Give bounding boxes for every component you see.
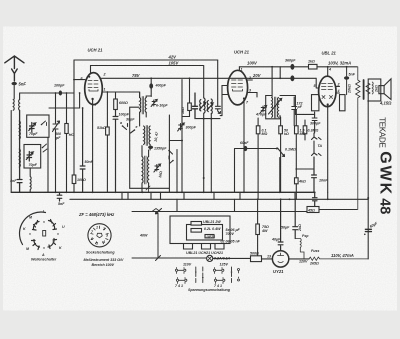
tube U3 UBL21 envelope <box>319 76 336 106</box>
bus2 <box>70 198 368 200</box>
bus line 105V <box>91 65 204 67</box>
wire 105V drop to tube top <box>90 66 92 73</box>
PSU resistor R13 75ohm <box>257 199 259 224</box>
wire bus3 to arrow <box>132 212 207 261</box>
box speaker field <box>368 79 381 101</box>
rectifier U4 UY21 <box>272 251 288 267</box>
IF transformer T4 arrow <box>269 99 282 115</box>
coil L4 bobbin <box>29 168 32 192</box>
wire T1-T2 link <box>140 112 147 126</box>
tube U2 pin7 lead <box>243 99 245 193</box>
SECTION2 <box>122 60 357 193</box>
resistor R9 0.3M <box>304 120 306 140</box>
tube U2 pin3 stub <box>247 93 257 98</box>
wire T1 tops <box>140 92 152 97</box>
junction dots bus1 <box>55 191 57 193</box>
tube U2 internals <box>232 80 243 91</box>
oscillator coil L6 <box>211 99 212 114</box>
oscillator coil L5 <box>204 98 205 113</box>
TEXTS2 <box>23 50 394 293</box>
wire extra tick <box>128 192 151 199</box>
resistor R3 51k <box>106 92 108 127</box>
rectifier leads <box>213 257 309 260</box>
SECTION4 <box>19 212 239 283</box>
tube U1 UCH21 envelope <box>85 73 103 105</box>
resistor bank R6 <box>257 118 259 192</box>
bus line 42V <box>74 59 218 61</box>
capacitor C6 6nF on line <box>290 75 294 81</box>
wire T4 to C14 <box>295 113 314 115</box>
wire grid cap lead <box>49 80 85 108</box>
coil Fsp field <box>295 239 304 259</box>
IF transformer T3 core <box>145 156 146 184</box>
speaker LS <box>379 86 384 94</box>
lamp dial <box>207 255 213 261</box>
resistor R14 500ohm <box>251 256 262 262</box>
transformer TR core bar <box>363 80 365 99</box>
trimmer C10 300pF <box>178 123 185 131</box>
trimmer CT2 <box>151 100 157 107</box>
selector group1 pins <box>177 268 185 274</box>
winding secondary zigzag <box>366 83 370 94</box>
wire 78V anode line <box>102 77 317 79</box>
bus line 100V anode <box>239 66 357 68</box>
node j3 <box>150 77 152 79</box>
resistor R8 1.5M <box>295 110 297 169</box>
socket circle <box>88 224 111 247</box>
IF transformer T4 core <box>274 97 275 118</box>
IF transformer T1 secondary <box>145 98 146 113</box>
contact D1 <box>42 121 47 126</box>
IF transformer T1 primary <box>140 98 141 113</box>
wire T3 ends <box>142 146 149 193</box>
capacitor C11b padder <box>215 106 222 115</box>
capacitor C9 1350pF <box>149 145 151 151</box>
antenna <box>5 56 24 81</box>
wellenschalter cluster NW <box>33 221 40 231</box>
trimmer CA1 70pF <box>29 123 36 133</box>
wire screen drop <box>272 67 280 97</box>
trimmer on bus1 <box>146 186 150 192</box>
tube U2 UCH21 envelope <box>228 70 248 105</box>
capacitor C16 10nF <box>312 157 317 192</box>
capacitor C2 100pF series <box>59 91 62 96</box>
IF transformer T2 core <box>146 126 147 146</box>
resistor R12 45ohm <box>307 207 319 213</box>
wellenschalter cluster SE <box>48 239 57 249</box>
wire AVC line 60pF <box>235 149 277 193</box>
selector group2 pins <box>215 268 223 274</box>
IF transformer T2 primary <box>144 126 145 144</box>
wire grid feed <box>20 93 74 100</box>
wire 42V vertical feed <box>73 60 75 175</box>
box barretter outer <box>170 216 230 244</box>
box S2 band unit 2 <box>24 145 41 169</box>
resistor R7 50k <box>280 117 282 192</box>
capacitor C7 400pF <box>150 78 152 96</box>
node j4 <box>271 66 273 68</box>
socket pins <box>91 226 109 244</box>
resistor R4 osc grid <box>189 78 191 103</box>
barretter tabs <box>184 244 225 250</box>
resistor R11 20k zigzag <box>356 67 360 210</box>
capacitor C11 osc pad <box>193 93 198 119</box>
bus1 ground <box>11 191 315 193</box>
resistor RB2 <box>191 229 202 233</box>
jack TA lower <box>312 141 322 156</box>
wire AF coupling <box>296 168 314 170</box>
speaker coil <box>371 82 374 94</box>
node j2 <box>66 92 68 94</box>
tube U3 left stubs <box>316 78 319 88</box>
tube U1 pin7 lead <box>92 99 94 192</box>
switch contacts a e upper <box>123 124 135 134</box>
tube U3 top lead <box>327 67 329 77</box>
capacitor C8 100pF <box>113 110 118 193</box>
trimmer CT4 470pF <box>260 106 266 113</box>
switch contacts a e mid <box>169 151 173 164</box>
tube U2 pin1 top <box>238 67 240 71</box>
capacitor C12 360pF <box>290 64 294 70</box>
jack TA upper <box>312 133 322 140</box>
wire left coil down <box>10 111 12 193</box>
bus3 heater <box>152 211 307 213</box>
wire S1 to bus <box>47 138 49 193</box>
capacitor C3 4nF <box>17 111 22 193</box>
box T4 shield <box>266 96 296 119</box>
tube U3 internals <box>322 84 333 99</box>
IF transformer T3 primary <box>142 157 143 184</box>
capacitor C20 40uF <box>278 199 283 250</box>
capacitor C13 172pF <box>292 97 297 126</box>
trimmer CA2 70pF <box>26 152 33 162</box>
resistor RB3 <box>205 235 214 238</box>
capacitor C4 500pF variable <box>53 93 60 192</box>
capacitor C19 5nF bus <box>57 192 62 201</box>
resistor R5 1k <box>309 64 318 69</box>
wire osc feedback <box>169 80 182 193</box>
wellenschalter cluster NE <box>49 220 57 230</box>
capacitor C1 5nF antenna <box>12 82 17 85</box>
wire pot wiper down <box>279 158 281 193</box>
tube U3 bottom lead <box>327 103 329 105</box>
tube U2 pin2 stub <box>247 79 252 81</box>
resistor R1 10k <box>72 175 76 184</box>
capacitor C15 60pF <box>244 146 248 151</box>
node dots bus2 psu <box>257 198 259 200</box>
wire band bus <box>176 150 178 193</box>
resistor R10 grid leak <box>295 178 299 184</box>
tube U1 internals <box>88 81 98 92</box>
IF transformer T4 secondary <box>276 98 279 118</box>
antenna transformer L1 <box>13 100 19 111</box>
IF transformer T1 core <box>142 97 143 115</box>
SECTION3 <box>11 66 391 267</box>
wire 105V to L5 <box>203 66 205 99</box>
capacitor C18 on drop <box>313 192 318 206</box>
node j5 <box>327 66 329 68</box>
contact D2 <box>43 144 48 152</box>
box right of U3 <box>340 95 346 111</box>
selector pins col <box>196 267 203 283</box>
arrow mains <box>156 209 162 214</box>
wellenschalter dots <box>43 221 44 222</box>
trimmer CT3 <box>154 164 161 172</box>
wellenschalter center <box>43 231 46 237</box>
choke HC <box>66 93 68 192</box>
box S1 band unit 1 <box>27 115 49 137</box>
IF transformer T4 primary <box>271 98 274 118</box>
wire 42V to L6 <box>217 60 219 106</box>
wire osc coils bottom <box>196 113 220 192</box>
capacitor C14 300pF <box>312 112 317 133</box>
box barretter inner <box>187 225 223 241</box>
wire pin1 <box>102 92 139 98</box>
switch on bus3 <box>152 209 160 212</box>
wire tube2 left pins <box>222 86 228 116</box>
bus ticks <box>122 192 328 211</box>
potentiometer P1 volume <box>276 148 278 150</box>
node j1 <box>55 92 57 94</box>
node j6 <box>73 79 75 81</box>
resistor RB1 <box>191 222 202 226</box>
box left of U3 <box>312 95 319 111</box>
wire speaker return <box>367 101 369 259</box>
fuse resistor 265ohm zigzag <box>309 257 368 260</box>
IF transformer T2 secondary <box>149 126 150 144</box>
box band filter unit <box>130 107 170 192</box>
capacitor C17 5nF out <box>346 67 348 95</box>
wellenschalter arc <box>19 212 45 244</box>
coil L2 tuning <box>19 121 20 139</box>
resistor R2 600 ohm <box>115 92 117 99</box>
tube U3 right stubs <box>336 86 340 93</box>
capacitor C21 50uF <box>293 199 298 238</box>
capacitor C22 60uF <box>365 229 371 231</box>
IF transformer T3 secondary <box>148 157 149 184</box>
wellenschalter cluster SW <box>32 240 40 250</box>
capacitor C5 50nF <box>80 108 85 192</box>
coil L3 lower <box>19 149 20 167</box>
